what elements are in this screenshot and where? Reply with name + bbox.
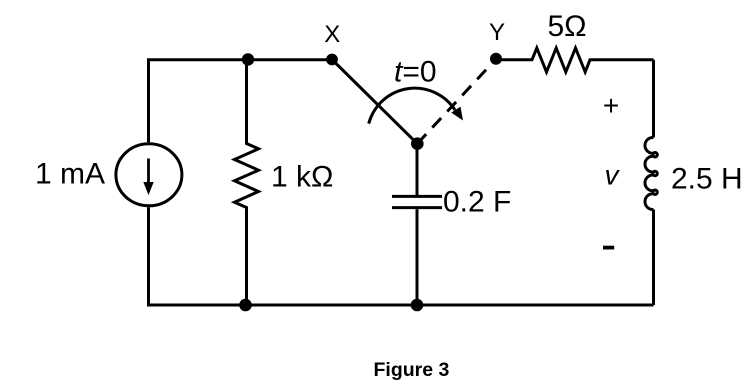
svg-text:1 mA: 1 mA <box>35 158 105 191</box>
svg-text:t=0: t=0 <box>394 56 437 89</box>
svg-text:Y: Y <box>489 19 505 46</box>
svg-text:Figure 3: Figure 3 <box>374 359 450 381</box>
svg-text:+: + <box>603 90 619 121</box>
svg-text:0.2 F: 0.2 F <box>443 186 511 219</box>
svg-text:1 kΩ: 1 kΩ <box>271 161 333 194</box>
svg-text:v: v <box>605 160 621 191</box>
svg-text:X: X <box>324 21 340 48</box>
svg-text:5Ω: 5Ω <box>548 10 587 43</box>
svg-text:2.5 H: 2.5 H <box>671 163 743 196</box>
